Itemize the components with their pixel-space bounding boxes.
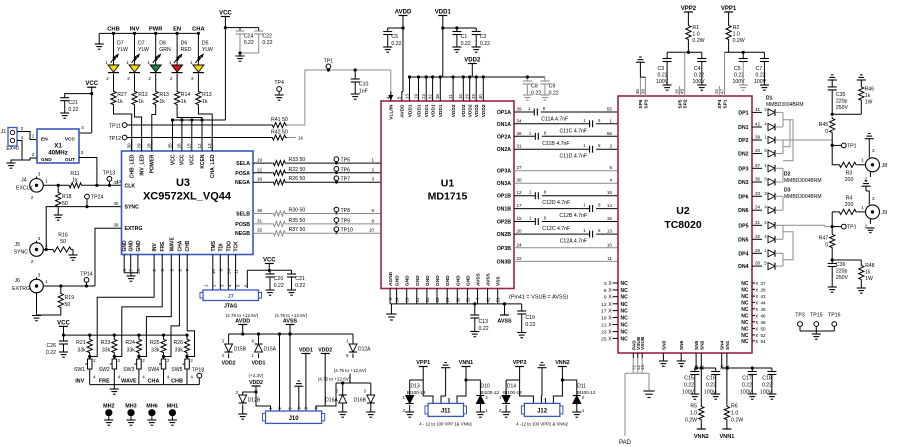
svg-text:SN5: SN5: [694, 340, 700, 350]
svg-text:R48: R48: [865, 263, 874, 269]
svg-text:SYNC: SYNC: [14, 250, 29, 256]
svg-text:ON1A: ON1A: [497, 122, 512, 128]
svg-text:DP6: DP6: [738, 194, 748, 200]
svg-text:ON2A: ON2A: [497, 147, 512, 153]
svg-text:CHA: CHA: [177, 240, 183, 251]
svg-text:2: 2: [106, 76, 109, 81]
svg-text:4 -12 to 100 VPP2 & VNN2: 4 -12 to 100 VPP2 & VNN2: [516, 422, 568, 427]
svg-text:3: 3: [604, 281, 607, 287]
svg-text:TP6: TP6: [341, 167, 351, 173]
wire: [243, 386, 256, 395]
svg-text:2: 2: [21, 126, 24, 131]
svg-text:AVSS: AVSS: [486, 272, 492, 286]
U2 pin 49 VSUB: [641, 353, 643, 358]
ground: [523, 94, 532, 96]
wire: [114, 262, 162, 357]
svg-text:SP3: SP3: [643, 99, 649, 108]
svg-text:VDD1: VDD1: [438, 104, 444, 117]
ground: [697, 84, 706, 86]
svg-text:J7: J7: [228, 294, 234, 300]
wire: [127, 124, 271, 126]
wire: [191, 120, 193, 140]
svg-text:220p: 220p: [836, 269, 848, 275]
svg-text:SW3: SW3: [123, 367, 134, 373]
svg-text:2: 2: [371, 167, 374, 172]
svg-text:RED: RED: [181, 47, 192, 53]
U1 pin 26 GND: [426, 289, 428, 304]
U3 pin 17 GND: [130, 255, 132, 263]
svg-text:13: 13: [404, 94, 409, 99]
ground: [517, 332, 526, 334]
U2 pin 26 SP5: [679, 86, 681, 96]
svg-text:0.2W: 0.2W: [733, 38, 745, 44]
resistor R5 1.0 0.2W: [700, 368, 702, 405]
svg-text:DP1: DP1: [738, 110, 748, 116]
svg-text:R4: R4: [846, 196, 853, 202]
svg-text:ON2B: ON2B: [497, 232, 512, 238]
wire LED common bus: [99, 32, 198, 34]
wire: [63, 326, 65, 335]
svg-text:C7: C7: [756, 66, 763, 72]
IC U2 TC8020: [618, 96, 752, 353]
capacitor C9 0.22: [544, 77, 546, 81]
U3 pin 28 POWER: [151, 140, 153, 152]
svg-text:SP6: SP6: [638, 99, 644, 108]
svg-text:GND: GND: [395, 275, 401, 286]
wire: [286, 172, 381, 174]
svg-text:D12A: D12A: [358, 347, 371, 353]
svg-text:J1: J1: [1, 129, 7, 135]
wire: [177, 106, 202, 151]
ground: [576, 404, 578, 413]
wire: [83, 184, 122, 186]
resistor R23 33k: [113, 335, 115, 338]
svg-text:0.22: 0.22: [694, 73, 704, 79]
wire: [57, 208, 59, 215]
svg-text:2: 2: [31, 259, 34, 264]
svg-text:54: 54: [761, 339, 767, 344]
wire: [198, 106, 212, 151]
diode D16B: [370, 383, 372, 395]
svg-text:0.22: 0.22: [684, 383, 694, 389]
resistor R2 1.0 0.2W: [728, 12, 730, 24]
capacitor C2 0.22: [472, 31, 481, 33]
U1 pin 14 GND: [396, 289, 398, 304]
svg-text:1nF: 1nF: [359, 89, 368, 95]
switch SW3: [138, 354, 140, 359]
wire: [832, 113, 861, 115]
U3 pin 15 VCC: [191, 140, 193, 152]
ground: [32, 315, 41, 317]
U1 pin 40 VDD2: [482, 92, 484, 102]
svg-text:30: 30: [127, 143, 132, 149]
U1 pin 11 VDD2: [452, 92, 454, 102]
wire: [91, 87, 93, 133]
wire: [695, 358, 697, 368]
testpoint TP13: [107, 176, 112, 181]
svg-text:R3: R3: [846, 171, 853, 177]
svg-text:1: 1: [147, 60, 150, 65]
U1 pin 21 GND: [416, 289, 418, 304]
U3 pin 26 VCC: [181, 140, 183, 152]
svg-text:36: 36: [640, 89, 645, 94]
U1 pin 13 VDD1: [409, 92, 411, 102]
connector J10: [266, 411, 322, 423]
U2 pin 72 PAD: [632, 353, 634, 358]
svg-text:47: 47: [719, 89, 724, 94]
svg-text:XC9572XL_VQ44: XC9572XL_VQ44: [143, 191, 232, 203]
svg-text:GND: GND: [41, 157, 52, 163]
svg-text:PAD: PAD: [619, 440, 632, 446]
svg-text:U1: U1: [441, 178, 455, 190]
svg-text:2: 2: [152, 269, 157, 272]
U3 pin 5 WAVE: [170, 255, 172, 263]
svg-text:NC: NC: [741, 307, 749, 313]
svg-text:MD1715: MD1715: [428, 191, 468, 203]
svg-text:C21: C21: [68, 100, 78, 106]
resistor R4 200: [838, 209, 858, 214]
svg-text:15: 15: [517, 216, 523, 221]
node PAD: [624, 373, 626, 436]
svg-text:VDD2: VDD2: [474, 104, 480, 117]
svg-text:KCEN: KCEN: [200, 154, 206, 169]
wire: [253, 232, 272, 234]
svg-text:J5: J5: [15, 242, 21, 248]
svg-text:R2: R2: [733, 25, 740, 31]
wire: [858, 164, 867, 166]
svg-text:D7: D7: [138, 41, 145, 47]
svg-text:C11A 4.7nF: C11A 4.7nF: [541, 117, 568, 123]
svg-text:TP1: TP1: [847, 225, 857, 231]
U3 pin 24 TDO: [227, 255, 229, 263]
svg-text:VLL/IN: VLL/IN: [389, 104, 395, 120]
svg-text:DP3: DP3: [738, 166, 748, 172]
svg-text:CHA_LED: CHA_LED: [210, 154, 216, 178]
svg-text:R11: R11: [70, 171, 79, 177]
svg-text:29: 29: [445, 297, 450, 302]
svg-text:GND: GND: [405, 275, 411, 286]
wire: [462, 77, 464, 92]
U3 pin 9 TDI: [219, 255, 221, 263]
svg-text:R6: R6: [731, 404, 738, 410]
svg-text:C22: C22: [262, 34, 272, 40]
svg-text:NC: NC: [621, 330, 629, 336]
svg-text:DP4: DP4: [738, 251, 748, 257]
svg-text:R25: R25: [150, 340, 160, 346]
svg-text:30: 30: [755, 261, 761, 266]
svg-text:VDD1: VDD1: [252, 361, 266, 367]
svg-text:0.22: 0.22: [531, 91, 541, 97]
svg-text:CLK: CLK: [125, 183, 136, 189]
svg-text:VDD1: VDD1: [416, 104, 422, 117]
svg-text:2: 2: [148, 76, 151, 81]
svg-text:J11: J11: [441, 409, 451, 415]
svg-text:R19: R19: [65, 295, 75, 301]
svg-text:39: 39: [755, 135, 761, 140]
U3 pin 30 CHB_LED: [131, 140, 133, 152]
wire: [425, 77, 427, 92]
svg-text:NC: NC: [621, 309, 629, 315]
svg-text:ON3A: ON3A: [497, 181, 512, 187]
svg-text:(+3.3V): (+3.3V): [249, 373, 264, 378]
wire: [783, 232, 793, 260]
oscillator X1 40MHz: [37, 129, 79, 163]
svg-text:27: 27: [761, 281, 767, 286]
svg-text:POSA: POSA: [235, 171, 250, 177]
svg-text:TMS: TMS: [211, 240, 217, 251]
testpoint TP1: [832, 144, 841, 146]
svg-text:1: 1: [609, 118, 612, 123]
wire: [422, 367, 424, 381]
svg-text:33k: 33k: [77, 348, 86, 354]
wire: [286, 213, 381, 215]
resistor R16 50: [51, 247, 73, 252]
svg-text:12: 12: [517, 190, 523, 195]
capacitor C18 0.22 100V: [771, 368, 773, 372]
svg-text:VCC: VCC: [170, 154, 176, 165]
svg-text:OP3A: OP3A: [497, 169, 511, 175]
svg-text:2: 2: [191, 76, 194, 81]
svg-text:VCC: VCC: [65, 137, 76, 143]
ground: [831, 74, 834, 76]
svg-text:BI100-13: BI100-13: [407, 390, 426, 395]
wire: [418, 77, 420, 92]
svg-text:R26 50: R26 50: [289, 176, 306, 182]
wire: [253, 213, 272, 215]
svg-text:J4: J4: [21, 178, 27, 184]
svg-text:D1: D1: [766, 96, 773, 102]
svg-text:4: 4: [609, 178, 612, 183]
wire: [561, 367, 563, 381]
svg-text:R26: R26: [173, 340, 183, 346]
svg-text:TP24: TP24: [91, 195, 104, 201]
svg-text:J10: J10: [289, 416, 300, 422]
svg-text:NC: NC: [621, 288, 629, 294]
svg-text:19: 19: [405, 297, 410, 302]
svg-text:1: 1: [45, 179, 48, 184]
svg-text:3: 3: [872, 196, 875, 201]
svg-text:DN5: DN5: [738, 237, 748, 243]
ground: [857, 287, 866, 289]
svg-text:C12D 4.7nF: C12D 4.7nF: [542, 200, 570, 206]
svg-text:19: 19: [413, 94, 418, 99]
svg-text:0.22: 0.22: [244, 40, 254, 46]
svg-text:100V: 100V: [693, 79, 706, 85]
svg-text:0.22: 0.22: [762, 383, 772, 389]
svg-text:0.22: 0.22: [734, 73, 744, 79]
resistor R47 0: [830, 233, 835, 249]
svg-text:GND: GND: [435, 275, 441, 286]
svg-text:28: 28: [761, 287, 767, 292]
svg-text:19: 19: [257, 158, 263, 163]
node VDD2: [228, 354, 230, 359]
svg-text:AVSS: AVSS: [497, 319, 512, 325]
svg-text:42: 42: [755, 122, 761, 127]
wire: [240, 52, 259, 54]
resistor R27 1k: [113, 74, 115, 90]
ground: [663, 84, 672, 86]
svg-text:TP3: TP3: [795, 313, 805, 319]
svg-text:EN: EN: [41, 137, 48, 143]
ground: [7, 162, 16, 164]
switch SW2: [113, 354, 115, 359]
svg-text:SN6: SN6: [679, 340, 685, 350]
svg-text:0.22: 0.22: [68, 107, 78, 113]
capacitor C36 220p 250V: [828, 263, 837, 265]
U3 pin 13 CHA_LED: [211, 140, 213, 152]
svg-text:16: 16: [607, 190, 613, 195]
svg-text:YLW: YLW: [202, 47, 213, 53]
wire: [139, 262, 171, 357]
svg-text:VDD2: VDD2: [468, 104, 474, 117]
svg-text:C5: C5: [391, 34, 398, 40]
wire: [782, 196, 784, 210]
svg-text:56: 56: [607, 131, 613, 136]
svg-text:R27: R27: [117, 92, 127, 98]
svg-text:40: 40: [113, 201, 119, 206]
svg-text:(4.75 to +12.6V): (4.75 to +12.6V): [334, 368, 367, 373]
wire into U1 pin4: [390, 70, 392, 96]
svg-text:SW2: SW2: [99, 367, 110, 373]
resistor R21 33k: [89, 335, 91, 338]
resistor R14 1k: [176, 74, 178, 90]
svg-text:EXTRG: EXTRG: [12, 286, 30, 292]
svg-text:D15B: D15B: [234, 347, 247, 353]
svg-text:0.22: 0.22: [480, 41, 490, 47]
svg-text:D2: D2: [784, 172, 791, 178]
svg-text:NC: NC: [741, 327, 749, 333]
wire: [172, 120, 174, 140]
svg-text:17: 17: [517, 203, 523, 208]
svg-text:VDD1: VDD1: [430, 104, 436, 117]
svg-text:10: 10: [369, 228, 375, 233]
svg-text:43: 43: [113, 180, 119, 185]
testpoint TP6: [334, 167, 339, 172]
svg-text:19: 19: [601, 316, 607, 322]
svg-text:31: 31: [517, 144, 523, 149]
ground: [760, 84, 769, 86]
svg-text:BI100-13: BI100-13: [480, 390, 499, 395]
capacitor C24 0.22: [236, 30, 245, 32]
resistor R12 1k: [134, 74, 136, 90]
connector J5 SYNC: [30, 243, 44, 257]
svg-text:SELA: SELA: [236, 161, 250, 167]
svg-text:INV_LED: INV_LED: [139, 154, 145, 176]
wire: [155, 33, 157, 65]
svg-text:0.22: 0.22: [525, 322, 535, 328]
U2 pin 24 SP4: [718, 86, 720, 96]
svg-text:AVSS: AVSS: [476, 272, 482, 286]
svg-text:C35: C35: [836, 92, 846, 98]
svg-text:20: 20: [517, 229, 523, 234]
svg-text:C10: C10: [359, 82, 369, 88]
svg-text:GND: GND: [445, 275, 451, 286]
svg-text:R45: R45: [819, 122, 829, 128]
svg-text:C36: C36: [836, 262, 846, 268]
svg-text:SW4: SW4: [148, 367, 159, 373]
svg-text:(4.75 to +12.6V): (4.75 to +12.6V): [318, 377, 351, 382]
svg-text:C24: C24: [244, 34, 254, 40]
ground: [472, 46, 481, 48]
svg-text:200: 200: [845, 202, 854, 208]
svg-text:1k: 1k: [181, 99, 187, 105]
svg-text:1W: 1W: [865, 100, 873, 106]
wire: [43, 184, 68, 186]
svg-text:1: 1: [21, 135, 24, 140]
U3 pin 10 TMS: [212, 255, 214, 263]
resistor R19 50: [58, 292, 63, 309]
wire: [482, 77, 484, 92]
ground: [370, 404, 372, 413]
capacitor C12B 4.7nF: [589, 205, 591, 212]
svg-text:VCC: VCC: [180, 154, 186, 165]
wire SYNC to U3: [46, 207, 121, 250]
svg-text:R14: R14: [181, 92, 191, 98]
svg-text:35: 35: [167, 143, 172, 149]
svg-text:GND: GND: [136, 240, 142, 252]
wire: [514, 233, 589, 235]
testpoint TP14: [84, 278, 89, 283]
wire: [858, 211, 866, 213]
wire: [219, 262, 221, 290]
wire: [514, 260, 618, 262]
U1 pin 28 GND: [436, 289, 438, 304]
svg-text:R46: R46: [865, 87, 874, 93]
svg-text:13: 13: [207, 143, 212, 149]
wire: [11, 141, 22, 164]
svg-text:DP5: DP5: [738, 223, 748, 229]
wire EXTRG to U3: [95, 228, 122, 286]
svg-text:AVDD: AVDD: [235, 319, 250, 325]
ground: [242, 405, 244, 415]
resistor R1 1.0 0.2W: [687, 12, 689, 24]
resistor R42 50: [271, 135, 287, 140]
resistor R18 50: [56, 191, 61, 208]
svg-text:SN3: SN3: [661, 340, 667, 350]
svg-text:C11B 4.7nF: C11B 4.7nF: [542, 141, 569, 147]
ground: [59, 351, 68, 353]
power AVSS down: [504, 304, 506, 315]
svg-text:EXTRG: EXTRG: [125, 226, 143, 232]
testpoint TP1: [326, 64, 331, 69]
svg-text:1k: 1k: [865, 270, 871, 276]
svg-text:17: 17: [601, 309, 607, 315]
wire J8 net: [783, 139, 832, 141]
ground: [812, 333, 821, 335]
wire: [782, 168, 784, 182]
svg-text:TP16: TP16: [828, 313, 841, 319]
svg-text:SELB: SELB: [236, 212, 250, 218]
svg-text:GND: GND: [465, 275, 471, 286]
svg-text:R5: R5: [690, 404, 697, 410]
U1 pin 38 VDD1: [439, 92, 441, 102]
svg-text:0.2W: 0.2W: [731, 418, 743, 424]
svg-text:33: 33: [465, 297, 470, 302]
svg-text:C9: C9: [549, 84, 556, 90]
U1 pin 23 VDD1: [425, 92, 427, 102]
svg-text:DN2: DN2: [738, 152, 748, 158]
svg-text:1: 1: [126, 60, 129, 65]
svg-text:45: 45: [680, 89, 685, 94]
svg-text:CHA: CHA: [148, 379, 160, 385]
svg-text:55: 55: [607, 107, 613, 112]
svg-text:C15: C15: [684, 376, 694, 382]
wire: [831, 134, 833, 145]
svg-text:VDD1: VDD1: [424, 104, 430, 117]
svg-text:TP9: TP9: [341, 218, 351, 224]
svg-text:21: 21: [415, 297, 420, 302]
ground: [639, 56, 642, 58]
